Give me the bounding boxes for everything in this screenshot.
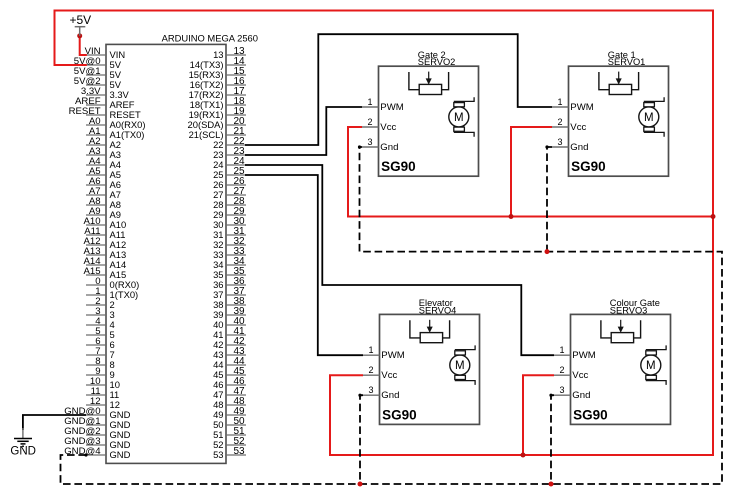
svg-text:M: M (455, 360, 465, 372)
svg-text:2: 2 (557, 117, 562, 127)
svg-text:Gnd: Gnd (572, 390, 590, 401)
svg-text:SERVO1: SERVO1 (608, 57, 646, 67)
svg-text:ARDUINO MEGA 2560: ARDUINO MEGA 2560 (162, 32, 258, 43)
svg-text:Vcc: Vcc (381, 370, 397, 381)
svg-text:1: 1 (559, 345, 564, 355)
svg-text:GND: GND (10, 446, 36, 458)
svg-text:1: 1 (367, 97, 372, 107)
svg-text:Gnd: Gnd (381, 390, 399, 401)
svg-text:3: 3 (557, 137, 562, 147)
svg-text:M: M (454, 112, 464, 124)
svg-text:Vcc: Vcc (570, 122, 586, 133)
svg-text:SG90: SG90 (381, 159, 416, 174)
svg-text:PWM: PWM (570, 102, 593, 113)
svg-text:Vcc: Vcc (572, 370, 588, 381)
svg-text:+5V: +5V (69, 13, 91, 27)
svg-text:1: 1 (557, 97, 562, 107)
svg-text:2: 2 (368, 365, 373, 375)
svg-text:1: 1 (368, 345, 373, 355)
svg-text:SG90: SG90 (382, 407, 417, 422)
svg-text:2: 2 (559, 365, 564, 375)
svg-text:SG90: SG90 (571, 159, 606, 174)
svg-text:PWM: PWM (381, 350, 404, 361)
svg-text:53: 53 (233, 446, 245, 457)
svg-text:PWM: PWM (572, 350, 595, 361)
svg-text:M: M (644, 112, 654, 124)
svg-text:3: 3 (559, 385, 564, 395)
svg-text:Gnd: Gnd (380, 142, 398, 153)
svg-text:Gnd: Gnd (570, 142, 588, 153)
svg-text:2: 2 (367, 117, 372, 127)
svg-text:53: 53 (213, 449, 223, 460)
svg-text:Vcc: Vcc (380, 122, 396, 133)
svg-text:SG90: SG90 (573, 407, 608, 422)
svg-text:3: 3 (367, 137, 372, 147)
svg-text:SERVO3: SERVO3 (610, 305, 648, 315)
svg-text:SERVO4: SERVO4 (419, 305, 457, 315)
svg-text:GND: GND (110, 449, 131, 460)
svg-text:M: M (646, 360, 656, 372)
svg-text:3: 3 (368, 385, 373, 395)
svg-text:SERVO2: SERVO2 (418, 57, 456, 67)
svg-text:PWM: PWM (380, 102, 403, 113)
